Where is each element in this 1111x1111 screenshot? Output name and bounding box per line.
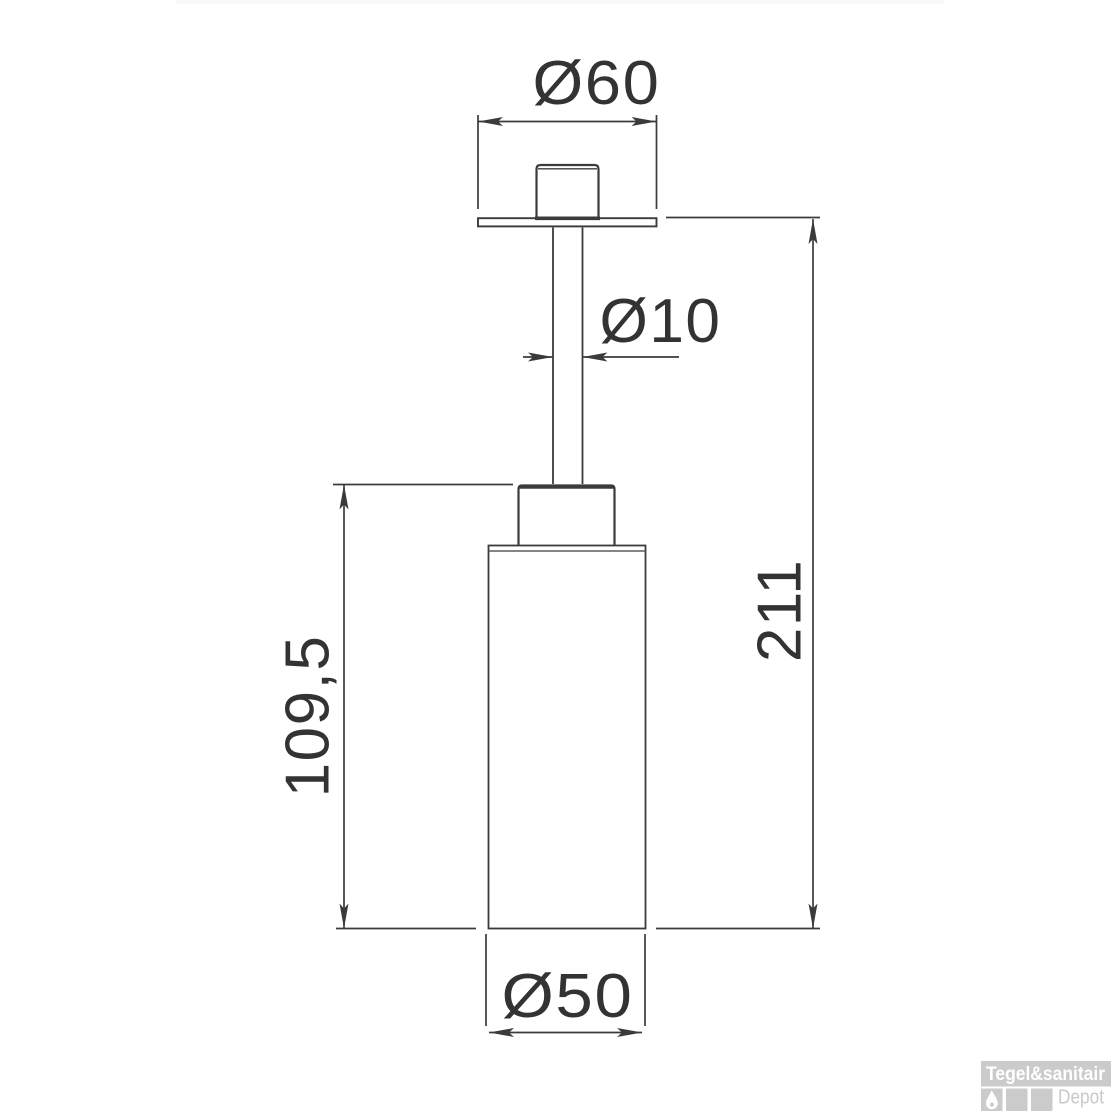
svg-text:Depot: Depot (1058, 1087, 1104, 1109)
svg-text:211: 211 (746, 559, 815, 662)
svg-text:Ø50: Ø50 (502, 962, 634, 1031)
svg-text:Ø10: Ø10 (600, 287, 722, 356)
svg-text:Tegel&sanitair: Tegel&sanitair (986, 1064, 1106, 1085)
svg-text:Ø60: Ø60 (533, 49, 661, 118)
svg-text:109,5: 109,5 (274, 635, 343, 798)
